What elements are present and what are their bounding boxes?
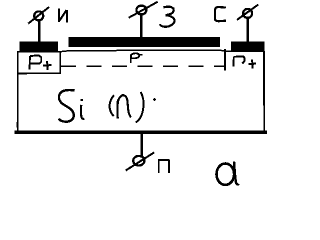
label З (gate) xyxy=(160,7,175,27)
substrate body Si(n) top edge xyxy=(17,50,265,52)
terminal З circle xyxy=(136,6,146,15)
terminal И slash xyxy=(28,7,49,24)
label P+ left: plus xyxy=(43,61,51,70)
terminal С circle xyxy=(243,9,252,18)
terminal С slash xyxy=(237,5,258,20)
wire gate lead xyxy=(140,15,143,38)
label Si(n): n xyxy=(117,95,130,118)
label Si(n): open paren xyxy=(110,95,114,116)
label P channel: bowl xyxy=(131,53,139,58)
substrate body bottom edge xyxy=(15,130,267,134)
label P+ right: P pole xyxy=(233,57,235,67)
terminal П circle xyxy=(133,156,144,166)
label Si(n): S xyxy=(59,90,75,122)
terminal И circle xyxy=(34,11,43,20)
metallization bar gate (center) xyxy=(69,37,221,47)
label a (figure letter) stem xyxy=(234,162,239,185)
label P+ right: P bowl xyxy=(234,56,245,63)
label P+ left: P bowl xyxy=(30,55,42,63)
wire substrate lead xyxy=(140,133,143,156)
label П (substrate) xyxy=(158,160,170,173)
label Si(n): close paren xyxy=(136,92,144,122)
terminal З slash xyxy=(129,2,158,18)
terminal П slash xyxy=(126,152,155,170)
wire drain lead xyxy=(247,19,250,43)
dashed p-channel boundary xyxy=(61,65,225,67)
P+ region box right: left edge xyxy=(224,49,226,71)
label И (source) xyxy=(59,9,67,23)
label Si(n): i stroke xyxy=(81,105,84,119)
metallization bar source (left) xyxy=(19,42,58,51)
P+ region box left: bottom edge xyxy=(17,72,61,74)
substrate body right edge xyxy=(263,51,265,132)
label P+ left: P pole xyxy=(29,56,31,69)
label P channel: pole xyxy=(130,55,132,63)
wire source lead xyxy=(38,21,41,43)
label С (drain) xyxy=(215,7,226,21)
stray ink dot xyxy=(153,98,156,101)
metallization bar drain (right) xyxy=(231,42,265,51)
substrate body left edge xyxy=(17,52,19,131)
label P channel: tick xyxy=(139,54,142,56)
label Si(n): i dot xyxy=(81,99,83,101)
label a (figure letter) oval xyxy=(217,164,235,185)
P+ region box left: right edge xyxy=(59,52,61,74)
label P+ right: plus xyxy=(248,60,256,69)
